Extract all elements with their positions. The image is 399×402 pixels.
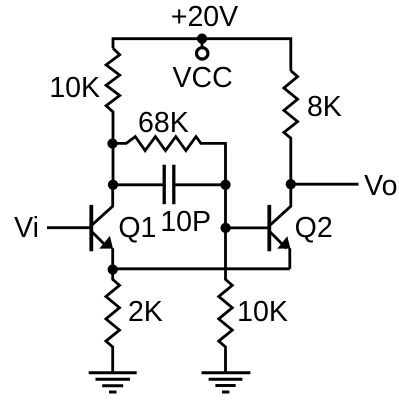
svg-text:Vo: Vo [364,170,397,202]
svg-text:Vi: Vi [14,212,39,244]
svg-text:Q1: Q1 [118,212,156,244]
svg-text:8K: 8K [307,91,342,123]
svg-text:VCC: VCC [173,62,233,94]
svg-text:+20V: +20V [171,1,238,33]
svg-text:2K: 2K [128,296,163,328]
svg-text:10K: 10K [237,296,288,328]
svg-text:10P: 10P [160,206,211,238]
svg-text:10K: 10K [49,72,100,104]
svg-text:Q2: Q2 [295,212,333,244]
svg-text:68K: 68K [138,107,189,139]
